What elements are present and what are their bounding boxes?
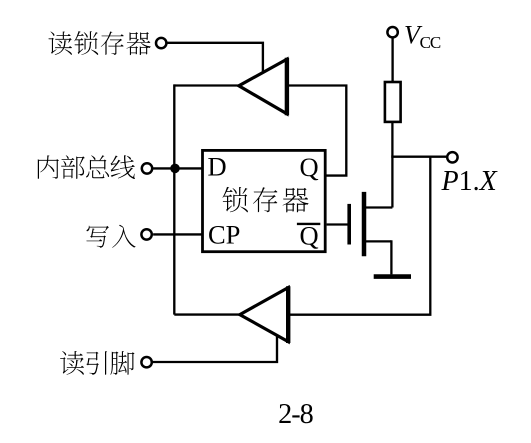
buffer G2 (read pin) bbox=[240, 286, 288, 343]
transistor Q2 (NMOS FET) bbox=[349, 192, 392, 256]
wire G2 output to internal bus bbox=[174, 313, 240, 315]
terminal 写入 bbox=[141, 229, 151, 239]
wire Q2 source to ground bbox=[390, 240, 392, 274]
svg-text:Q: Q bbox=[300, 221, 319, 251]
svg-text:CC: CC bbox=[420, 33, 441, 52]
buffer G1 (read latch) bbox=[239, 58, 287, 115]
wire node to G2 input bbox=[289, 156, 430, 315]
wire node P1.X bbox=[391, 156, 446, 158]
terminal 读锁存器 bbox=[156, 38, 166, 48]
svg-text:Q: Q bbox=[300, 152, 319, 182]
svg-text:P1.X: P1.X bbox=[441, 166, 498, 197]
ground bbox=[374, 274, 411, 279]
terminal P1.X bbox=[447, 152, 457, 162]
pin label Q-bar bbox=[297, 221, 320, 251]
label 读引脚 bbox=[60, 351, 135, 375]
wire 内部总线 to D bbox=[153, 167, 203, 169]
junction dot internal bus bbox=[170, 164, 180, 174]
wire G1 output to internal bus bbox=[174, 84, 239, 86]
latch U1 box bbox=[203, 150, 326, 251]
wire VCC to R1 bbox=[391, 37, 393, 81]
svg-text:D: D bbox=[208, 152, 227, 182]
svg-text:CP: CP bbox=[208, 219, 240, 249]
terminal 内部总线 bbox=[142, 163, 152, 173]
wire R1 to Q2 drain bbox=[391, 122, 393, 208]
wire internal bus vertical bbox=[173, 84, 175, 314]
label 读锁存器 bbox=[49, 31, 151, 55]
terminal VCC bbox=[387, 27, 397, 37]
label 内部总线 bbox=[38, 155, 135, 179]
resistor R1 bbox=[385, 82, 401, 122]
wire 读引脚 to G2 enable bbox=[152, 336, 277, 363]
wire 写入 to CP bbox=[153, 233, 203, 235]
svg-text:2-8: 2-8 bbox=[278, 399, 313, 430]
wire Q to G1 input bbox=[288, 86, 346, 176]
wire 读锁存器 to G1 enable bbox=[167, 43, 263, 73]
label VCC bbox=[404, 20, 441, 52]
label 锁存器 bbox=[223, 187, 309, 213]
wire Q-bar to Q2 gate bbox=[327, 223, 349, 225]
terminal 读引脚 bbox=[141, 357, 151, 367]
label 写入 bbox=[86, 225, 135, 248]
